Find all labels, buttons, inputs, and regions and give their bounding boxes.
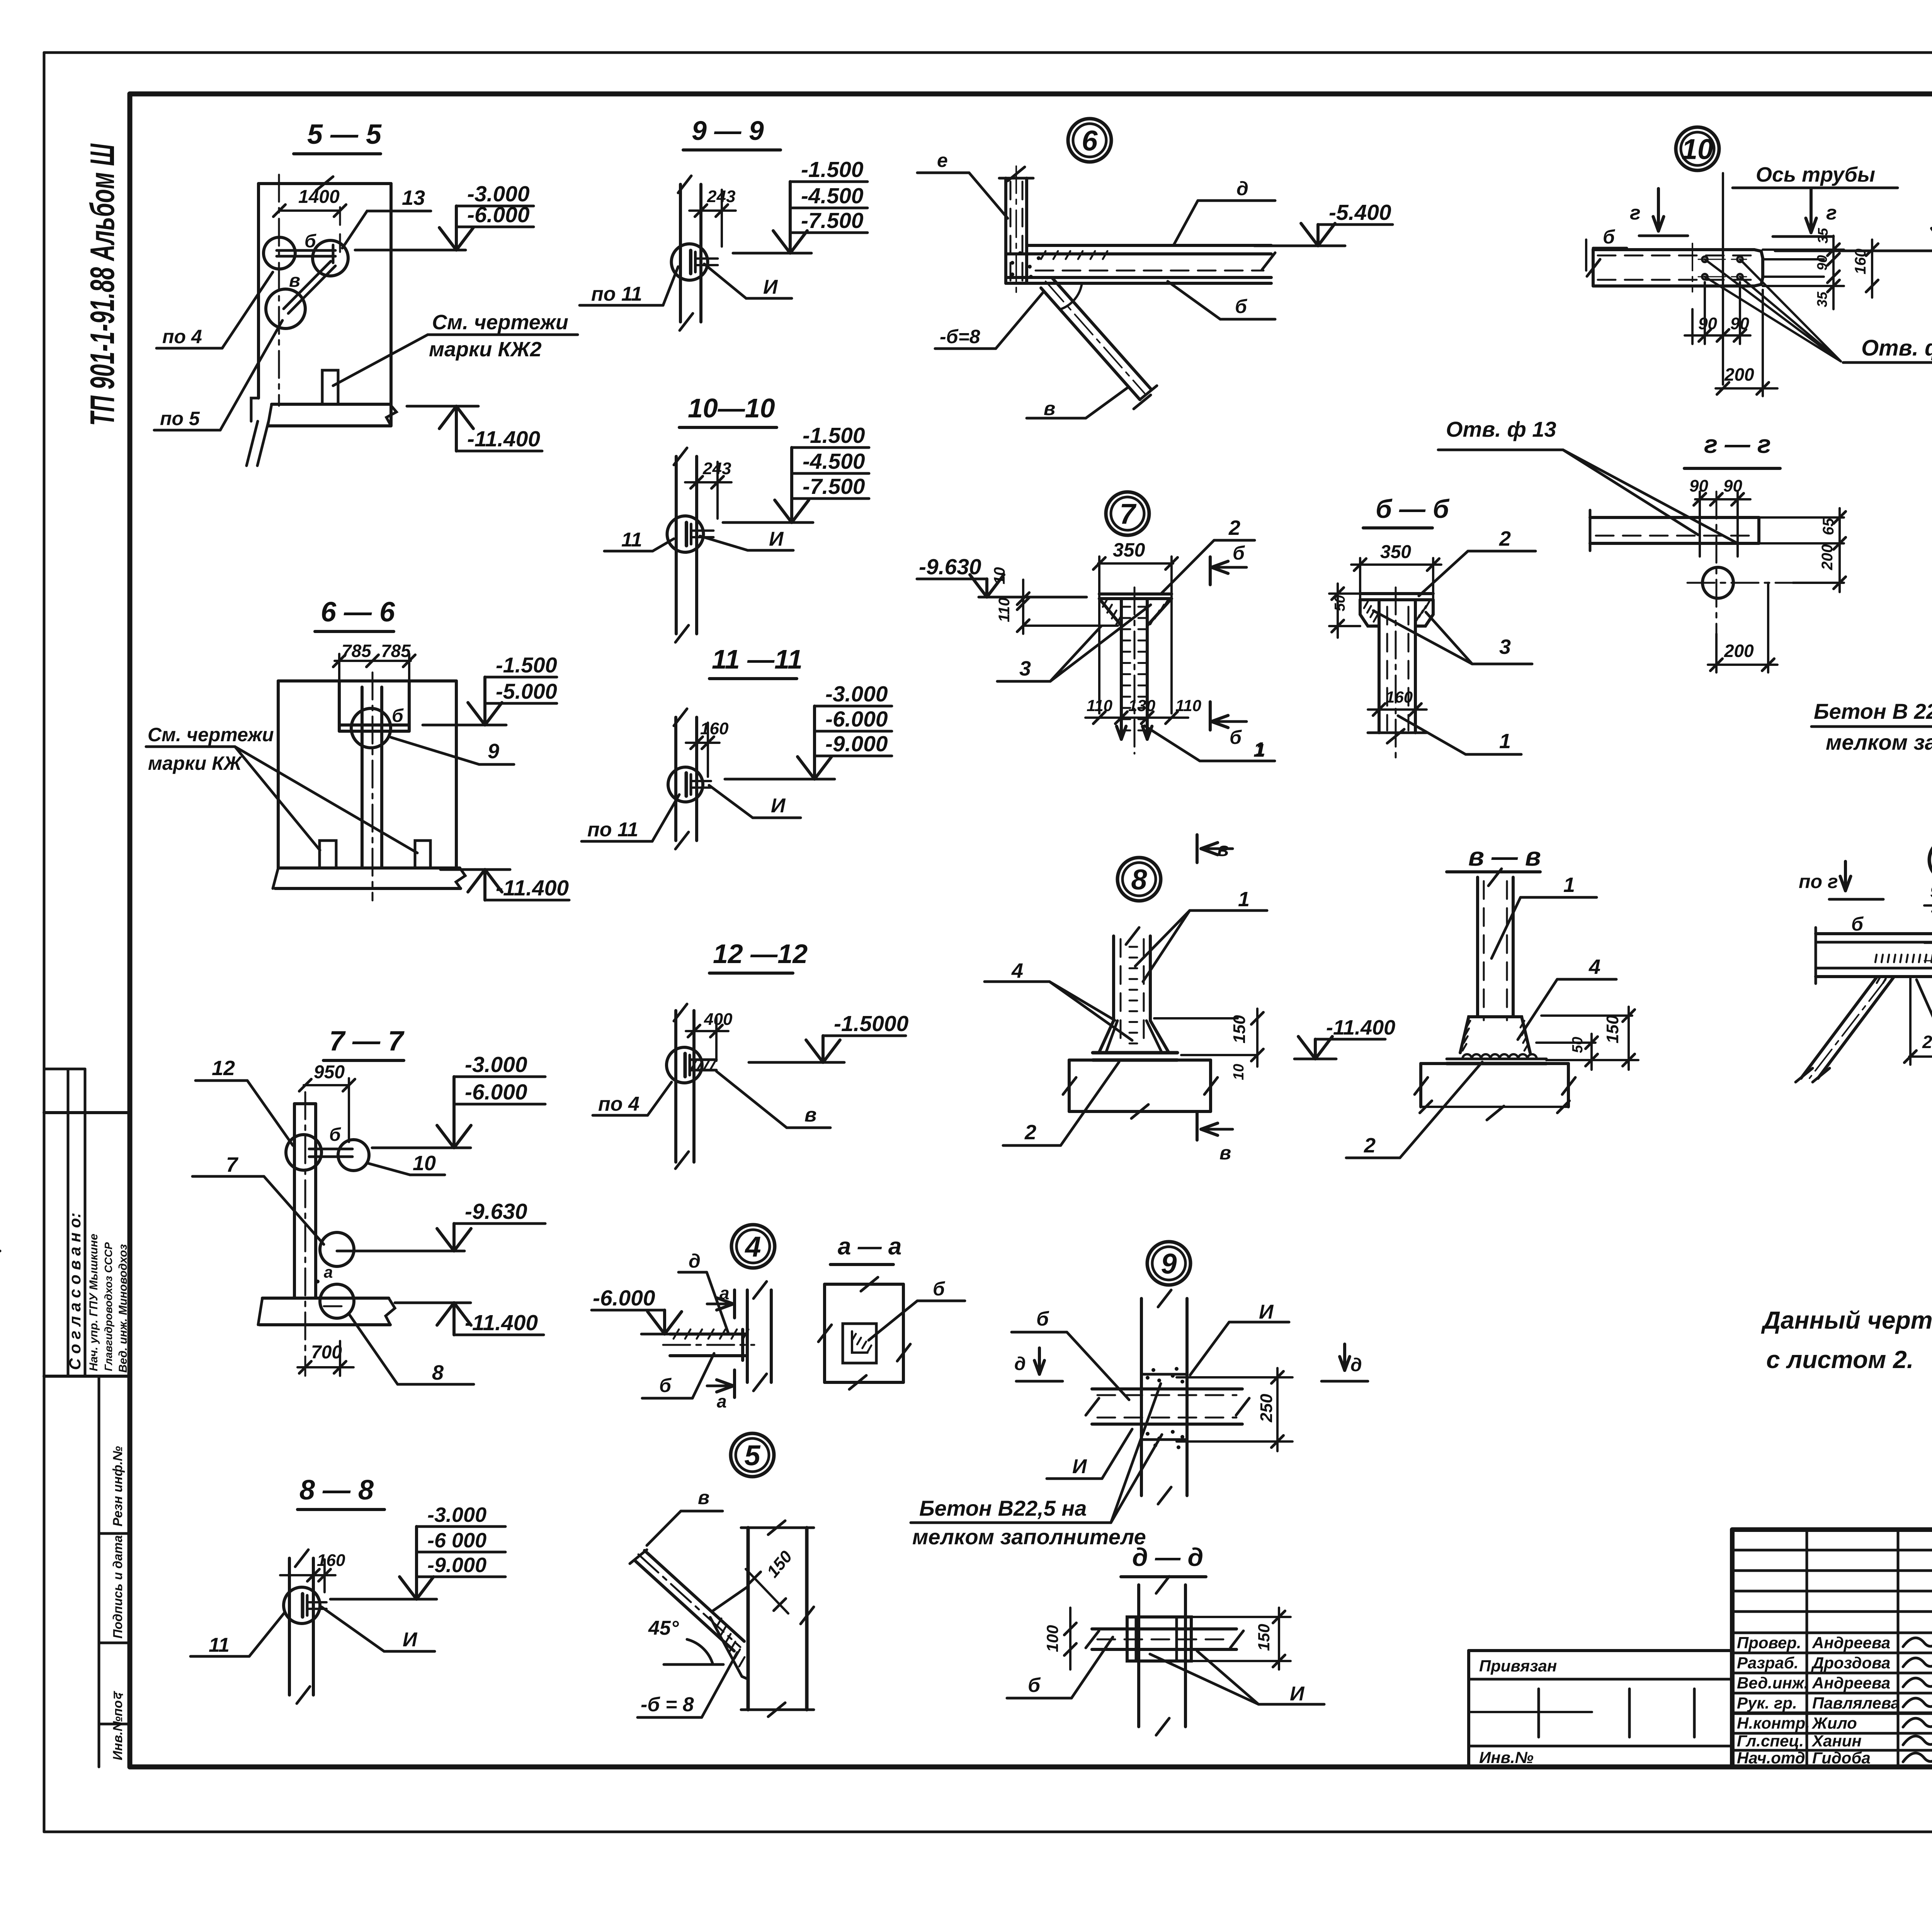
svg-text:а — а: а — а bbox=[838, 1233, 901, 1260]
svg-text:10: 10 bbox=[413, 1152, 436, 1175]
svg-text:по г: по г bbox=[1799, 871, 1838, 892]
svg-text:-11.400: -11.400 bbox=[496, 876, 569, 900]
svg-text:50: 50 bbox=[1570, 1037, 1586, 1053]
svg-text:7 — 7: 7 — 7 bbox=[329, 1026, 405, 1057]
svg-text:Дроздова: Дроздова bbox=[1811, 1654, 1890, 1672]
svg-text:90: 90 bbox=[1723, 477, 1742, 495]
svg-text:200: 200 bbox=[1922, 1032, 1932, 1052]
svg-text:в: в bbox=[1219, 1142, 1231, 1164]
svg-text:2: 2 bbox=[1364, 1134, 1376, 1157]
svg-text:С о г л а с о в а н о:: С о г л а с о в а н о: bbox=[66, 1213, 84, 1370]
svg-text:Нач.отд: Нач.отд bbox=[1737, 1749, 1805, 1767]
svg-text:в — в: в — в bbox=[1468, 842, 1541, 871]
svg-text:160: 160 bbox=[700, 719, 729, 738]
svg-text:Андреева: Андреева bbox=[1812, 1674, 1890, 1692]
svg-text:-7.500: -7.500 bbox=[801, 208, 864, 233]
svg-text:10: 10 bbox=[1682, 133, 1713, 165]
svg-text:6: 6 bbox=[1082, 125, 1098, 157]
svg-text:-9.000: -9.000 bbox=[825, 732, 888, 756]
svg-text:б: б bbox=[1028, 1674, 1041, 1697]
svg-text:12 —12: 12 —12 bbox=[713, 939, 808, 969]
svg-text:б: б bbox=[659, 1375, 672, 1396]
svg-text:12: 12 bbox=[212, 1057, 235, 1080]
svg-text:150: 150 bbox=[1255, 1624, 1273, 1651]
svg-text:См. чертежи: См. чертежи bbox=[432, 311, 568, 334]
svg-text:б: б bbox=[933, 1278, 946, 1300]
svg-text:-6.000: -6.000 bbox=[593, 1286, 655, 1310]
svg-text:И: И bbox=[763, 276, 778, 298]
svg-text:в: в bbox=[289, 271, 300, 291]
svg-text:См. чертежи: См. чертежи bbox=[148, 724, 274, 745]
svg-text:И: И bbox=[1072, 1455, 1087, 1478]
svg-text:е: е bbox=[937, 150, 948, 171]
svg-text:Андреева: Андреева bbox=[1812, 1634, 1890, 1652]
svg-text:б: б bbox=[304, 231, 316, 252]
svg-text:11: 11 bbox=[621, 529, 642, 551]
svg-text:9 — 9: 9 — 9 bbox=[692, 116, 764, 146]
svg-text:ТП 901-1-91.88 Альбом Ш: ТП 901-1-91.88 Альбом Ш bbox=[83, 143, 121, 426]
svg-text:785: 785 bbox=[342, 641, 372, 661]
svg-text:-9.000: -9.000 bbox=[427, 1554, 486, 1577]
svg-text:г — г: г — г bbox=[1704, 430, 1771, 458]
svg-text:13: 13 bbox=[402, 186, 425, 209]
svg-text:Отв. ф 13: Отв. ф 13 bbox=[1446, 417, 1556, 441]
svg-text:10—10: 10—10 bbox=[688, 393, 775, 423]
svg-text:-1.5000: -1.5000 bbox=[834, 1011, 909, 1036]
svg-text:785: 785 bbox=[381, 641, 411, 661]
svg-text:-б=8: -б=8 bbox=[940, 326, 980, 347]
svg-text:400: 400 bbox=[704, 1010, 733, 1029]
svg-text:8: 8 bbox=[432, 1361, 444, 1384]
svg-text:в: в bbox=[698, 1487, 709, 1508]
svg-text:7: 7 bbox=[1119, 498, 1137, 530]
svg-text:д — д: д — д bbox=[1132, 1543, 1203, 1571]
svg-text:1: 1 bbox=[1563, 873, 1575, 897]
svg-text:д: д bbox=[1236, 178, 1248, 199]
svg-text:350: 350 bbox=[1113, 539, 1145, 561]
svg-text:-11.400: -11.400 bbox=[1326, 1016, 1395, 1039]
svg-text:Рук. гр.: Рук. гр. bbox=[1737, 1694, 1797, 1712]
svg-text:-9.630: -9.630 bbox=[465, 1199, 527, 1224]
svg-text:марки КЖ: марки КЖ bbox=[148, 752, 243, 774]
svg-text:Ханин: Ханин bbox=[1811, 1732, 1862, 1750]
svg-text:9: 9 bbox=[488, 740, 499, 763]
svg-text:150: 150 bbox=[1230, 1015, 1249, 1043]
svg-text:Жило: Жило bbox=[1811, 1714, 1857, 1732]
svg-text:110: 110 bbox=[1175, 696, 1201, 715]
svg-text:-б = 8: -б = 8 bbox=[641, 1693, 694, 1716]
svg-text:700: 700 bbox=[311, 1342, 342, 1363]
svg-text:11: 11 bbox=[209, 1634, 230, 1656]
svg-text:-5.000: -5.000 bbox=[496, 679, 557, 703]
svg-text:-6.000: -6.000 bbox=[465, 1080, 527, 1105]
svg-text:по 11: по 11 bbox=[587, 819, 638, 841]
svg-text:-1.500: -1.500 bbox=[801, 157, 864, 182]
svg-text:Отв. ф 13: Отв. ф 13 bbox=[1861, 335, 1932, 361]
svg-text:-6.000: -6.000 bbox=[825, 707, 888, 732]
svg-text:110: 110 bbox=[996, 597, 1013, 622]
svg-text:-11.400: -11.400 bbox=[467, 427, 540, 451]
svg-text:И: И bbox=[769, 528, 784, 550]
svg-text:7: 7 bbox=[226, 1153, 239, 1176]
svg-text:по 11: по 11 bbox=[591, 283, 642, 305]
svg-text:1: 1 bbox=[1238, 888, 1250, 911]
svg-text:160: 160 bbox=[1386, 688, 1413, 706]
svg-text:-7.500: -7.500 bbox=[803, 474, 865, 499]
svg-text:мелком заполнителе: мелком заполнителе bbox=[1826, 730, 1932, 754]
svg-text:в: в bbox=[1044, 398, 1055, 419]
svg-text:в: в bbox=[804, 1104, 816, 1126]
svg-text:б: б bbox=[1851, 913, 1864, 935]
svg-text:г: г bbox=[1826, 202, 1837, 224]
svg-text:1400: 1400 bbox=[298, 187, 340, 207]
svg-text:б: б bbox=[1036, 1308, 1049, 1330]
svg-text:160: 160 bbox=[1852, 248, 1869, 274]
svg-text:И: И bbox=[771, 795, 786, 817]
svg-text:Подпись и дата: Подпись и дата bbox=[111, 1535, 125, 1639]
svg-text:250: 250 bbox=[1257, 1394, 1276, 1423]
svg-text:4: 4 bbox=[1011, 959, 1023, 982]
svg-text:Данный чертеж рассматрив: Данный чертеж рассматривать совместно bbox=[1761, 1306, 1932, 1334]
svg-text:-3.000: -3.000 bbox=[465, 1052, 527, 1077]
svg-text:11 —11: 11 —11 bbox=[712, 644, 803, 674]
svg-text:10: 10 bbox=[991, 567, 1008, 585]
svg-text:Резн инф.№: Резн инф.№ bbox=[111, 1446, 125, 1527]
svg-text:4: 4 bbox=[744, 1231, 761, 1263]
svg-text:а: а bbox=[717, 1391, 727, 1411]
svg-text:-6 000: -6 000 bbox=[427, 1529, 486, 1552]
svg-text:35: 35 bbox=[1814, 291, 1830, 307]
svg-text:а: а bbox=[324, 1263, 333, 1281]
svg-text:И: И bbox=[1259, 1301, 1274, 1323]
svg-text:Привязан: Привязан bbox=[1479, 1657, 1557, 1675]
svg-text:-11.400: -11.400 bbox=[465, 1310, 538, 1335]
svg-text:6 — 6: 6 — 6 bbox=[321, 597, 395, 628]
svg-text:марки КЖ2: марки КЖ2 bbox=[429, 338, 542, 361]
svg-text:Гидоба: Гидоба bbox=[1812, 1749, 1871, 1767]
svg-text:мелком заполнителе: мелком заполнителе bbox=[912, 1525, 1146, 1549]
svg-text:90: 90 bbox=[1930, 882, 1932, 901]
svg-text:И: И bbox=[403, 1629, 418, 1651]
svg-text:-1.500: -1.500 bbox=[496, 653, 557, 677]
svg-text:Провер.: Провер. bbox=[1737, 1634, 1801, 1652]
svg-text:д: д bbox=[689, 1250, 701, 1272]
svg-text:65: 65 bbox=[1820, 518, 1837, 535]
svg-text:б: б bbox=[1603, 226, 1616, 248]
svg-text:б: б bbox=[1233, 542, 1245, 564]
svg-text:д: д bbox=[1350, 1355, 1362, 1375]
svg-text:Инв.№: Инв.№ bbox=[1479, 1748, 1534, 1767]
svg-text:по 4: по 4 bbox=[162, 326, 202, 347]
svg-text:г: г bbox=[1630, 202, 1641, 224]
svg-text:4: 4 bbox=[1588, 955, 1600, 979]
svg-text:35: 35 bbox=[1815, 228, 1831, 243]
svg-text:Вед. инж. Миноводхоз: Вед. инж. Миноводхоз bbox=[117, 1244, 129, 1373]
svg-text:Нач. упр. ГПУ Мышкине: Нач. упр. ГПУ Мышкине bbox=[87, 1234, 100, 1371]
svg-text:90: 90 bbox=[1698, 314, 1717, 333]
svg-text:Главгидроводхоз СССР: Главгидроводхоз СССР bbox=[102, 1242, 114, 1371]
svg-text:по 4: по 4 bbox=[598, 1093, 639, 1115]
svg-text:350: 350 bbox=[1380, 542, 1411, 562]
svg-text:1: 1 bbox=[1253, 738, 1265, 761]
svg-text:д: д bbox=[1014, 1354, 1026, 1374]
svg-text:-1.500: -1.500 bbox=[803, 423, 865, 448]
svg-text:110: 110 bbox=[1087, 696, 1112, 715]
svg-text:И: И bbox=[1290, 1683, 1305, 1705]
svg-text:б — б: б — б bbox=[1376, 494, 1450, 524]
svg-text:Бетон В 22,5 на: Бетон В 22,5 на bbox=[1814, 699, 1932, 723]
svg-text:Гл.спец.: Гл.спец. bbox=[1737, 1732, 1804, 1750]
svg-text:-5.400: -5.400 bbox=[1329, 200, 1391, 225]
svg-text:Павлялева: Павлялева bbox=[1812, 1694, 1900, 1712]
svg-text:Вед.инж.: Вед.инж. bbox=[1737, 1674, 1808, 1692]
svg-text:8 — 8: 8 — 8 bbox=[299, 1475, 374, 1506]
svg-text:б: б bbox=[329, 1125, 341, 1145]
svg-text:б: б bbox=[1230, 727, 1242, 748]
svg-text:б: б bbox=[392, 706, 404, 726]
svg-text:3: 3 bbox=[1019, 657, 1031, 680]
svg-text:с листом 2.: с листом 2. bbox=[1766, 1346, 1914, 1373]
svg-text:10: 10 bbox=[1231, 1064, 1247, 1080]
svg-text:45°: 45° bbox=[648, 1617, 679, 1639]
svg-text:Ось трубы: Ось трубы bbox=[1756, 163, 1875, 186]
svg-text:по 5: по 5 bbox=[160, 408, 200, 429]
svg-text:б: б bbox=[1235, 296, 1248, 317]
svg-text:Разраб.: Разраб. bbox=[1737, 1654, 1799, 1672]
svg-text:-6.000: -6.000 bbox=[467, 203, 530, 227]
svg-text:150: 150 bbox=[1603, 1015, 1622, 1043]
svg-text:5 — 5: 5 — 5 bbox=[307, 119, 382, 150]
svg-text:1: 1 bbox=[1499, 730, 1511, 753]
svg-text:100: 100 bbox=[1043, 1625, 1061, 1652]
svg-text:3: 3 bbox=[1499, 635, 1511, 659]
svg-text:2: 2 bbox=[1228, 516, 1240, 539]
svg-text:8: 8 bbox=[1131, 864, 1147, 896]
svg-text:-3.000: -3.000 bbox=[427, 1503, 486, 1527]
svg-text:950: 950 bbox=[314, 1062, 345, 1082]
svg-text:90: 90 bbox=[1814, 255, 1830, 271]
svg-text:2: 2 bbox=[1024, 1121, 1036, 1144]
svg-text:9: 9 bbox=[1161, 1248, 1177, 1280]
svg-text:5: 5 bbox=[744, 1440, 761, 1472]
svg-text:-4.500: -4.500 bbox=[801, 184, 864, 208]
svg-text:Инв.№поद: Инв.№поद bbox=[111, 1691, 125, 1760]
svg-text:160: 160 bbox=[317, 1551, 345, 1570]
svg-text:Бетон В22,5 на: Бетон В22,5 на bbox=[919, 1496, 1087, 1520]
svg-text:200: 200 bbox=[1819, 544, 1836, 570]
svg-text:-3.000: -3.000 bbox=[825, 682, 888, 706]
svg-text:2: 2 bbox=[1499, 527, 1511, 550]
svg-text:-4.500: -4.500 bbox=[803, 449, 865, 474]
svg-text:200: 200 bbox=[1724, 641, 1754, 661]
svg-text:Н.контр.: Н.контр. bbox=[1737, 1714, 1810, 1732]
